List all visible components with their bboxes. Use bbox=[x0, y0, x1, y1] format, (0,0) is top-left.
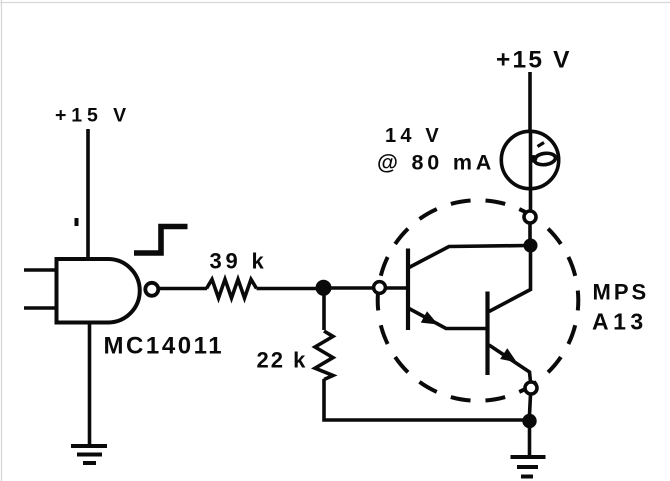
svg-text:MPS: MPS bbox=[593, 280, 650, 305]
svg-text:A13: A13 bbox=[592, 309, 648, 335]
svg-text:14 V: 14 V bbox=[385, 125, 443, 147]
svg-text:MC14011: MC14011 bbox=[104, 333, 225, 360]
svg-text:39 k: 39 k bbox=[210, 249, 268, 274]
svg-text:+15 V: +15 V bbox=[496, 47, 572, 74]
svg-text:22 k: 22 k bbox=[257, 348, 308, 373]
svg-text:+15 V: +15 V bbox=[55, 105, 131, 127]
svg-text:@ 80 mA: @ 80 mA bbox=[377, 151, 495, 175]
